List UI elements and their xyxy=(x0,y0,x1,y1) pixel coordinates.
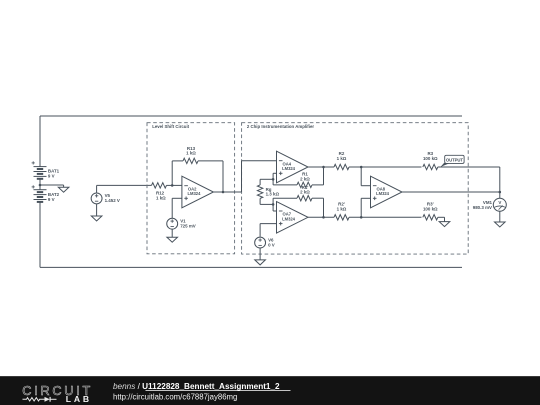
svg-text:OUTPUT: OUTPUT xyxy=(446,158,464,163)
wire R2' node to OA8 non-inverting input xyxy=(361,198,370,217)
svg-text:1 kΩ: 1 kΩ xyxy=(337,206,347,211)
wire OA2 output xyxy=(213,191,241,193)
wire OA4 non-inverting input to feedback node xyxy=(273,173,276,179)
node battery midpoint xyxy=(39,184,42,187)
ground V1 xyxy=(167,237,178,242)
wire top supply rail xyxy=(40,115,462,117)
wire R2 node to OA8 inverting input xyxy=(361,167,370,186)
wire battery midpoint to ground xyxy=(40,185,64,187)
node OA4 output junction xyxy=(322,166,325,169)
svg-text:0 V: 0 V xyxy=(268,242,275,247)
resistor Rg xyxy=(257,185,279,199)
wire bottom supply rail xyxy=(40,266,462,268)
op-amp OA8 xyxy=(371,176,403,208)
wire V1 to ground xyxy=(171,229,173,237)
svg-text:1.452 V: 1.452 V xyxy=(105,198,120,203)
svg-text:Level Shift Circuit: Level Shift Circuit xyxy=(152,124,189,129)
wire R1' to OA7 output node xyxy=(312,198,324,217)
svg-text:V: V xyxy=(498,200,501,205)
node OA8 inverting branch xyxy=(360,166,363,169)
voltage source V6 xyxy=(255,237,275,248)
resistor R2' xyxy=(334,201,349,220)
op-amp OA2 xyxy=(182,176,214,208)
resistor R12 xyxy=(152,183,173,201)
voltage source V1 xyxy=(167,218,196,229)
svg-text:100 kΩ: 100 kΩ xyxy=(423,156,438,161)
footer bar xyxy=(0,376,540,405)
node OA7 feedback junction xyxy=(272,203,275,206)
ground R3' xyxy=(439,222,450,227)
wire feedback node up to R1' xyxy=(273,198,297,204)
svg-text:100 kΩ: 100 kΩ xyxy=(423,206,438,211)
svg-text:9 V: 9 V xyxy=(48,197,55,202)
ground V5 xyxy=(91,216,102,221)
instrumentation amplifier box xyxy=(242,123,469,254)
node OA7 output junction xyxy=(322,216,325,219)
wire VM1 to ground xyxy=(499,211,501,222)
svg-text:9 V: 9 V xyxy=(48,174,55,179)
wire R13 feedback left leg xyxy=(172,161,183,186)
wire R13 feedback right leg xyxy=(198,161,223,192)
wire feedback node down to R1 xyxy=(273,179,297,185)
svg-text:1 kΩ: 1 kΩ xyxy=(337,156,347,161)
level shift circuit box xyxy=(147,123,235,254)
wire lower feedback node to OA7 inverting input xyxy=(273,204,276,211)
op-amp OA4 xyxy=(277,151,309,183)
wire R12 node to op-amp OA2 inverting input xyxy=(172,184,182,186)
flag OUTPUT xyxy=(440,155,464,167)
svg-text:725 mV: 725 mV xyxy=(180,223,196,228)
wire R1 to OA4 output node xyxy=(312,167,324,185)
node OA2 output feedback junction xyxy=(222,191,225,194)
wire OA7 non-inverting input to V6 xyxy=(260,224,276,237)
CircuitLab logo text CIRCUIT xyxy=(22,384,93,398)
node OA4 feedback junction xyxy=(272,178,275,181)
svg-text:LM324: LM324 xyxy=(282,216,296,221)
battery BAT2 xyxy=(32,185,60,206)
wire OA8 output xyxy=(402,191,500,193)
svg-text:980.3 mV: 980.3 mV xyxy=(473,205,492,210)
svg-text:1.3 kΩ: 1.3 kΩ xyxy=(266,192,280,197)
node OA8 non-inverting branch xyxy=(360,216,363,219)
svg-text:2 kΩ: 2 kΩ xyxy=(300,189,310,194)
node output junction xyxy=(499,191,502,194)
footer schematic title line xyxy=(113,382,291,391)
wire OA2 non-inverting input to V1 xyxy=(172,198,182,218)
svg-text:1 kΩ: 1 kΩ xyxy=(186,151,196,156)
wire left rail lower segment xyxy=(39,206,41,267)
resistor R3 xyxy=(423,151,438,170)
CircuitLab logo text LAB xyxy=(66,394,92,404)
resistor R1' xyxy=(297,185,312,201)
svg-text:LM324: LM324 xyxy=(376,191,390,196)
footer url line xyxy=(113,393,237,402)
wire level-shift output to OA4 inverting input xyxy=(242,161,277,192)
svg-text:LM324: LM324 xyxy=(188,191,202,196)
svg-text:benns / U1122828_Bennett_Assig: benns / U1122828_Bennett_Assignment1_2 xyxy=(113,382,280,391)
resistor R2 xyxy=(334,151,349,170)
svg-text:LAB: LAB xyxy=(66,394,92,404)
op-amp OA7 xyxy=(277,202,309,234)
wire R3' to ground xyxy=(438,217,445,221)
ground battery midpoint xyxy=(58,187,69,192)
svg-text:LM324: LM324 xyxy=(282,166,296,171)
wire R3 to output column xyxy=(438,167,500,192)
wire R2' to R3' xyxy=(349,216,422,218)
wire OA7 output to R2' xyxy=(308,216,334,218)
voltage source V5 xyxy=(91,185,120,203)
resistor R1 xyxy=(297,172,312,188)
resistor R13 xyxy=(183,146,198,164)
wire left rail upper segment xyxy=(39,116,41,163)
wire OA4 output to R2 xyxy=(308,166,334,168)
wire Rg bottom to lower feedback node xyxy=(260,198,273,204)
svg-text:1 kΩ: 1 kΩ xyxy=(156,196,166,201)
CircuitLab logo glyph (resistor and diode) xyxy=(23,397,57,402)
voltmeter VM1 xyxy=(473,192,507,211)
svg-text:http://circuitlab.com/c67887ja: http://circuitlab.com/c67887jay86mg xyxy=(113,393,237,402)
ground V6 xyxy=(255,260,266,265)
wire V6 to ground xyxy=(259,248,261,260)
svg-text:2 Chip Instrumentation Amplifi: 2 Chip Instrumentation Amplifier xyxy=(247,124,314,129)
node R12 output xyxy=(171,184,174,187)
wire R2 to R3 xyxy=(349,166,422,168)
wire V5 to R12 xyxy=(97,184,152,186)
resistor R3' xyxy=(423,201,438,220)
svg-text:2 kΩ: 2 kΩ xyxy=(300,176,310,181)
battery BAT1 xyxy=(32,161,60,185)
wire feedback node to Rg top xyxy=(260,179,273,185)
wire V5 to ground xyxy=(96,204,98,216)
ground VM1 xyxy=(495,222,506,227)
